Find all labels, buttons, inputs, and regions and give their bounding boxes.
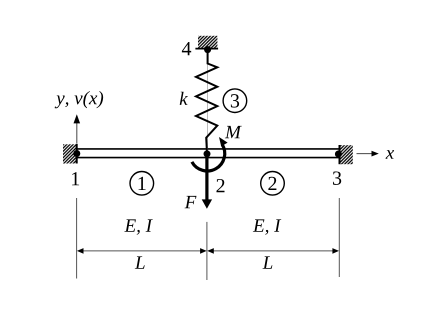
label L left bbox=[135, 256, 145, 268]
label E, I right span bbox=[253, 219, 281, 234]
label node 3 bbox=[333, 171, 341, 184]
dimension extension line at node 2 bbox=[206, 222, 208, 280]
node 2 bbox=[204, 150, 211, 157]
element circle 1 bbox=[130, 172, 154, 196]
element circle 3 bbox=[223, 89, 247, 113]
label node 4 bbox=[182, 42, 191, 55]
top fixed support (wall at node 4) bbox=[195, 36, 218, 49]
x axis arrow bbox=[357, 151, 379, 157]
left fixed support (wall at node 1) bbox=[63, 144, 77, 164]
force F arrow at node 2 bbox=[202, 155, 212, 209]
spring k element 3 bbox=[196, 50, 217, 151]
dimension line L right span bbox=[207, 248, 339, 254]
node 1 bbox=[73, 150, 80, 157]
label node 1 bbox=[72, 172, 79, 185]
dimension extension line at node 3 bbox=[338, 198, 340, 277]
label k bbox=[180, 92, 188, 105]
label E, I left span bbox=[124, 219, 152, 234]
label M bbox=[225, 126, 242, 138]
label x bbox=[386, 150, 395, 159]
dimension extension line at node 1 bbox=[76, 198, 78, 279]
right fixed support (wall at node 3) bbox=[340, 145, 353, 164]
label y, v(x) bbox=[55, 91, 103, 108]
label node 2 bbox=[216, 179, 224, 192]
y axis arrow bbox=[74, 114, 81, 143]
node 3 bbox=[335, 151, 342, 158]
moment M arc at node 2 bbox=[192, 137, 228, 171]
spring centerline (node 4 to node 2) bbox=[207, 50, 209, 150]
label L right bbox=[262, 256, 272, 268]
beam element 1-2-3 (double line) bbox=[77, 149, 339, 158]
node 4 bbox=[204, 46, 211, 53]
dimension line L left span bbox=[77, 248, 207, 254]
element circle 2 bbox=[261, 172, 285, 196]
label F bbox=[185, 196, 197, 208]
